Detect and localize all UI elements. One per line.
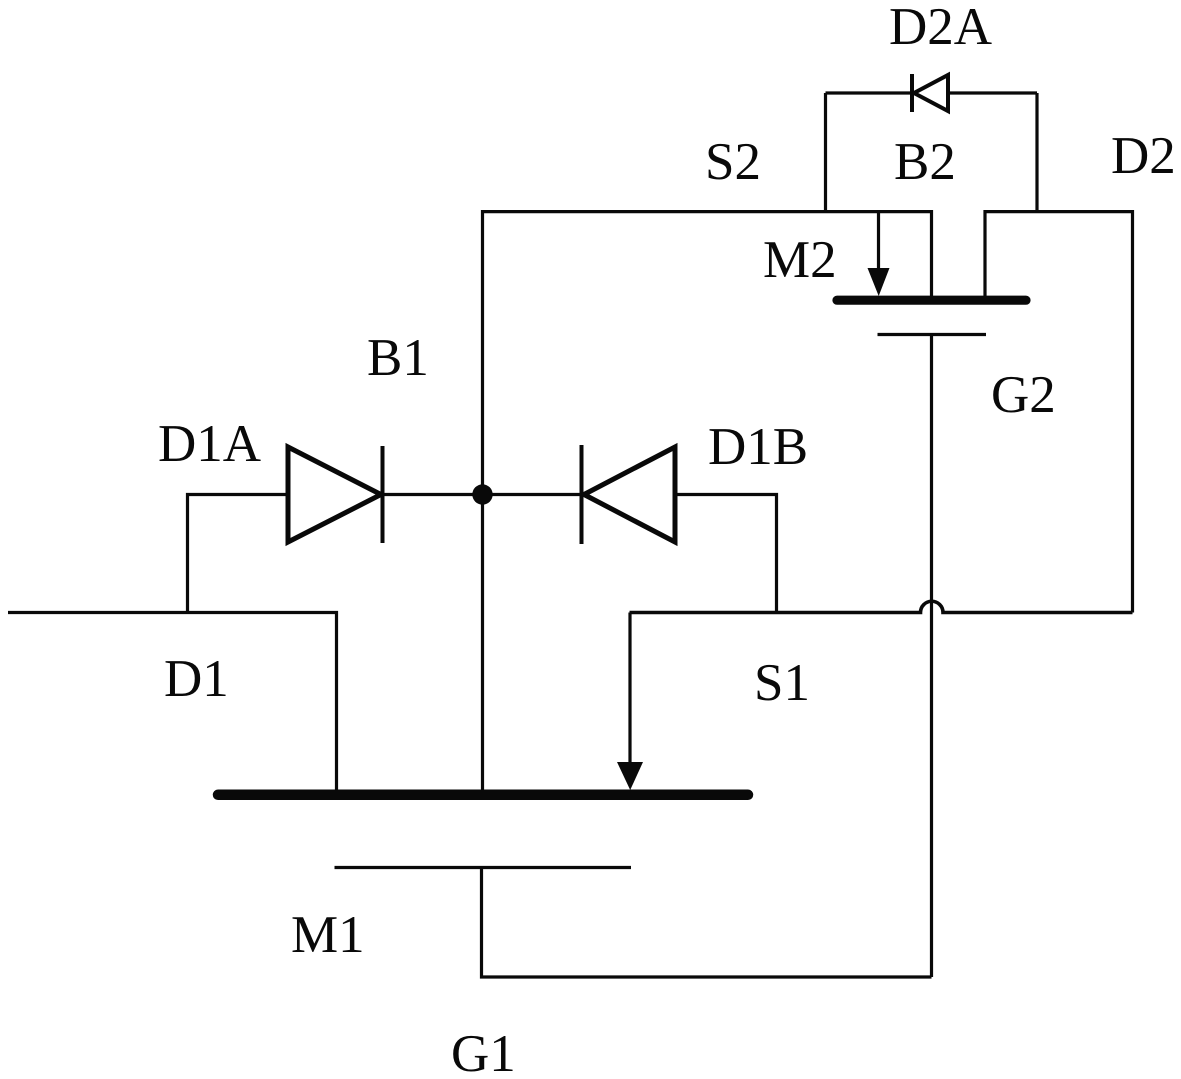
node B1 junction dot	[472, 484, 492, 504]
svg-text:M1: M1	[291, 906, 365, 964]
wire: D1A anode branch	[188, 495, 289, 613]
svg-text:S2: S2	[705, 133, 761, 191]
arrowhead M1 source	[617, 762, 643, 790]
svg-text:G1: G1	[451, 1025, 516, 1079]
arrowhead M2 source	[868, 268, 890, 296]
wire: S1 horizontal with hop over gate net	[630, 601, 1133, 612]
diode D2A triangle	[914, 75, 948, 111]
svg-text:D2A: D2A	[889, 0, 992, 56]
transistor M1 channel bar	[218, 790, 748, 801]
transistor M2 gate bar	[878, 333, 987, 336]
wire: D2A cathode lead	[826, 91, 912, 94]
wire: S2/B2 top horizontal	[483, 212, 932, 790]
svg-text:M2: M2	[763, 231, 837, 289]
wire: D2 top segment	[985, 212, 1133, 613]
wire: D2A loop left vertical	[824, 93, 827, 212]
diode D1A cathode bar	[381, 446, 385, 543]
diode D1A triangle	[288, 447, 381, 542]
transistor M2 channel bar	[837, 296, 1026, 305]
diode D1B triangle	[584, 447, 675, 542]
svg-text:B1: B1	[367, 329, 429, 387]
svg-text:G2: G2	[991, 366, 1056, 424]
wire: M1 source arrow lead	[628, 613, 631, 767]
wire: D1B anode branch	[675, 495, 777, 613]
wire: M2 gate down to G1 net	[930, 335, 933, 978]
transistor M1 gate bar	[335, 866, 632, 869]
wire: D1A cathode to node to D1B cathode	[383, 493, 582, 496]
wire: D2A anode lead	[949, 91, 1037, 94]
diode D1B cathode bar	[580, 445, 584, 544]
wire: D1 left lead	[8, 613, 337, 791]
svg-text:S1: S1	[754, 654, 810, 712]
wire: G1 bottom horizontal	[482, 868, 932, 978]
svg-text:D1A: D1A	[158, 415, 261, 473]
svg-text:D1B: D1B	[708, 418, 808, 476]
svg-text:D1: D1	[164, 650, 229, 708]
svg-text:B2: B2	[894, 133, 956, 191]
wire: M2 source arrow lead	[877, 212, 880, 271]
diode D2A cathode bar	[910, 74, 914, 112]
wire: D2A loop right vertical	[1035, 93, 1038, 212]
svg-text:D2: D2	[1111, 127, 1176, 185]
